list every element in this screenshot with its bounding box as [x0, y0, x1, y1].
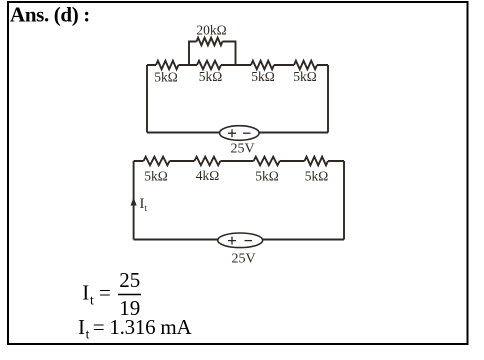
svg-text:Ans. (d) :: Ans. (d) :: [10, 3, 90, 27]
resistor 4k (circuit2 second): [194, 157, 220, 166]
resistor 5k first (circuit1): [156, 61, 179, 70]
svg-text:5kΩ: 5kΩ: [293, 69, 317, 84]
voltage source 25V (circuit2): [218, 233, 263, 248]
formula It = 25/19: [82, 268, 141, 320]
wire: circuit1 right vertical: [327, 65, 329, 133]
minus sign source2: [245, 240, 253, 242]
voltage source 25V (circuit1): [220, 126, 260, 141]
svg-text:5kΩ: 5kΩ: [154, 70, 178, 85]
wire: circuit1 top rail segments: [147, 64, 328, 66]
wire: circuit2 bottom rail: [134, 239, 344, 241]
resistor 20k bridge: [197, 38, 223, 46]
wire: circuit2 top rail segments: [134, 160, 344, 162]
resistor 5k second (circuit1): [197, 61, 221, 70]
resistor 5k (circuit2 fourth): [305, 157, 329, 166]
wire: 20k bridge left vertical: [189, 42, 197, 66]
svg-text:It: It: [140, 196, 148, 214]
wire: circuit1 bottom rail: [147, 132, 328, 134]
resistor 5k fourth (circuit1): [294, 61, 317, 70]
svg-text:=: =: [99, 281, 111, 305]
plus sign source2: [228, 237, 252, 245]
svg-text:4kΩ: 4kΩ: [196, 168, 220, 183]
svg-text:5kΩ: 5kΩ: [305, 169, 329, 184]
svg-text:t: t: [90, 293, 94, 308]
svg-text:25V: 25V: [231, 252, 255, 267]
wire: circuit1 left vertical: [146, 65, 148, 133]
svg-text:5kΩ: 5kΩ: [144, 169, 168, 184]
wire: circuit2 right vertical: [343, 161, 345, 240]
wire: 20k bridge right vertical: [223, 42, 236, 66]
current arrow It: [131, 198, 137, 206]
plus sign source1: [228, 129, 251, 137]
minus sign source1: [243, 132, 251, 134]
svg-text:25: 25: [119, 268, 140, 292]
svg-text:I: I: [82, 281, 89, 305]
svg-text:5kΩ: 5kΩ: [251, 69, 275, 84]
svg-text:25V: 25V: [230, 142, 254, 157]
svg-text:I: I: [78, 315, 85, 339]
formula It = 1.316 mA: [78, 315, 192, 342]
resistor 5k (circuit2 third): [254, 157, 280, 166]
svg-text:5kΩ: 5kΩ: [199, 69, 223, 84]
resistor 5k third (circuit1): [251, 61, 274, 70]
wire: circuit2 left vertical: [133, 161, 135, 240]
svg-text:= 1.316 mA: = 1.316 mA: [93, 315, 193, 339]
svg-text:5kΩ: 5kΩ: [255, 169, 279, 184]
resistor 5k (circuit2 first): [144, 157, 170, 166]
svg-text:20kΩ: 20kΩ: [196, 23, 226, 38]
svg-text:t: t: [86, 327, 90, 342]
